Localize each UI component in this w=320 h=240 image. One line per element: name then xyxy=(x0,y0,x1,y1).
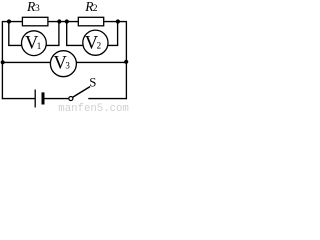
svg-text:manfen5.com: manfen5.com xyxy=(58,103,129,113)
node dot B between R3 and R2 xyxy=(65,19,69,23)
wire V3 row right xyxy=(76,61,126,63)
battery plate long (positive) xyxy=(34,90,36,108)
battery plate short thick (negative) xyxy=(42,92,45,104)
svg-text:2: 2 xyxy=(93,4,98,14)
svg-text:3: 3 xyxy=(35,4,40,14)
wire bottom left segment xyxy=(2,98,35,100)
node dot V3 right rail xyxy=(124,60,128,64)
wire left rail xyxy=(1,22,3,100)
voltmeter V2 xyxy=(83,30,108,55)
node dot top-left xyxy=(7,19,11,23)
wire V2 left branch xyxy=(67,22,84,46)
svg-text:S: S xyxy=(89,76,96,90)
switch S lever xyxy=(73,87,90,98)
svg-text:3: 3 xyxy=(65,61,70,71)
svg-text:2: 2 xyxy=(97,40,102,50)
svg-text:1: 1 xyxy=(37,41,42,51)
wire V3 row left xyxy=(2,61,50,63)
node dot A between R3 and R2 xyxy=(57,19,61,23)
resistor R3 xyxy=(22,17,48,26)
wire switch-to-right segment xyxy=(88,98,127,100)
node dot V3 left rail xyxy=(1,60,5,64)
node dot top-right xyxy=(116,19,120,23)
resistor R2 xyxy=(78,17,103,26)
voltmeter V3 xyxy=(50,51,76,77)
wire V2 right branch xyxy=(108,22,118,46)
wire top bus xyxy=(2,21,127,23)
voltmeter V1 xyxy=(22,31,47,56)
wire battery-to-switch segment xyxy=(44,98,68,100)
switch S pivot circle xyxy=(69,96,73,100)
wire right rail xyxy=(125,22,127,100)
wire V1 right branch xyxy=(46,22,59,46)
wire V1 left branch xyxy=(9,22,22,46)
